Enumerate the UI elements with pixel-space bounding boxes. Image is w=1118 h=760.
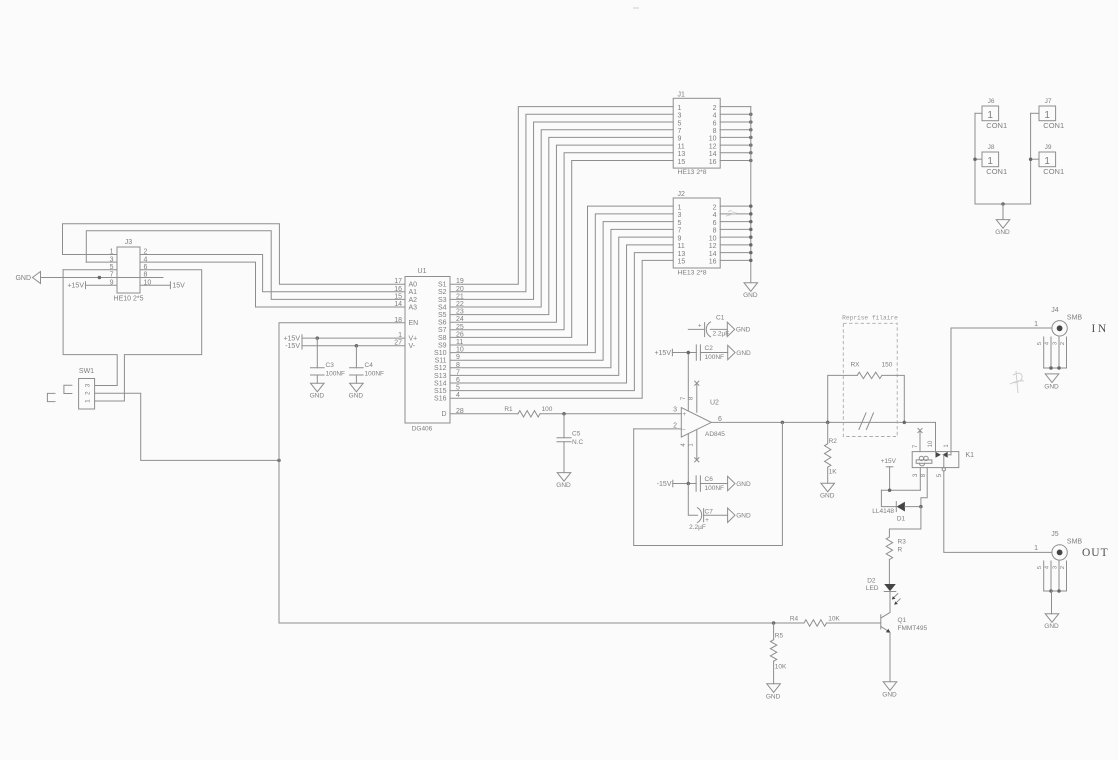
svg-text:S8: S8: [438, 335, 447, 342]
LED D2: [866, 578, 900, 605]
svg-text:R3: R3: [898, 539, 907, 546]
svg-text:+: +: [698, 324, 702, 330]
svg-text:FMMT495: FMMT495: [898, 625, 928, 632]
svg-text:1: 1: [1044, 156, 1050, 167]
svg-text:LL4148: LL4148: [872, 508, 894, 515]
wire J1 pin 4 to GND bus: [720, 113, 751, 115]
wire J7/J9 ground leg: [1030, 113, 1032, 204]
wire J9 pin1 stub: [1031, 158, 1039, 160]
svg-text:GND: GND: [1044, 623, 1059, 630]
svg-text:1: 1: [1034, 545, 1038, 552]
jumper slashes on output wire: [859, 413, 874, 430]
svg-text:DG406: DG406: [412, 426, 433, 433]
svg-text:9: 9: [678, 136, 682, 143]
junction RX right on output net: [903, 421, 907, 425]
wire J1 pin 2 to GND bus: [720, 106, 751, 108]
svg-text:2: 2: [85, 391, 92, 395]
svg-text:CON1: CON1: [986, 167, 1007, 176]
wire Q1 emitter to ground: [889, 633, 891, 682]
svg-text:6: 6: [713, 220, 717, 227]
resistor RX 150: [850, 361, 892, 378]
svg-text:4: 4: [713, 113, 717, 120]
wire U1 S11 to J2 pin 5: [450, 222, 673, 361]
svg-text:GND: GND: [736, 350, 751, 357]
wire node down to R3: [889, 507, 921, 537]
op-amp U2 AD845: [673, 396, 725, 447]
svg-text:100NF: 100NF: [705, 354, 725, 361]
svg-text:13: 13: [678, 151, 686, 158]
svg-text:8: 8: [713, 128, 717, 135]
wire J7 pin1 stub: [1031, 112, 1039, 114]
svg-text:S5: S5: [438, 312, 447, 319]
svg-text:J8: J8: [988, 144, 995, 151]
wire GND to J3 pin7/8: [41, 277, 164, 279]
ground below C4: [350, 383, 364, 392]
junction D1/R3: [919, 505, 923, 509]
svg-text:J5: J5: [1051, 531, 1059, 538]
wire J2 pin 14 to GND bus: [720, 252, 751, 254]
svg-text:5: 5: [678, 120, 682, 127]
svg-text:5: 5: [678, 220, 682, 227]
svg-text:HE13 2*8: HE13 2*8: [677, 169, 706, 176]
svg-text:GND: GND: [736, 513, 751, 520]
junction output/feedback: [781, 421, 785, 425]
svg-text:D2: D2: [867, 578, 876, 585]
svg-text:C2: C2: [705, 345, 714, 352]
wire J6/J8 ground leg: [975, 113, 1031, 204]
ground below R5: [767, 684, 781, 693]
wire J5 shield to ground: [1051, 591, 1053, 614]
wire to ground J6-J9: [1002, 204, 1004, 220]
capacitor C6 100NF: [696, 476, 724, 492]
svg-text:1: 1: [689, 443, 695, 447]
wire SW1.2 toward EN node: [95, 393, 279, 460]
svg-text:3: 3: [678, 113, 682, 120]
svg-text:GND: GND: [766, 693, 781, 700]
wire J1 pin 8 to GND bus: [720, 129, 751, 131]
dashed box Reprise filaire: [842, 315, 898, 437]
svg-text:CON1: CON1: [1043, 167, 1064, 176]
svg-text:8: 8: [689, 396, 695, 400]
wire +15V rail to C1: [688, 328, 704, 330]
wire J3.3 to U1 A2: [86, 231, 405, 300]
svg-text:1K: 1K: [829, 468, 838, 475]
svg-text:SW1: SW1: [79, 368, 94, 375]
wire J6 pin1 stub: [975, 112, 982, 114]
svg-text:15: 15: [678, 159, 686, 166]
svg-text:S16: S16: [434, 396, 447, 403]
junction C3 tap: [316, 336, 320, 340]
svg-text:2.2µF: 2.2µF: [689, 524, 706, 531]
svg-text:GND: GND: [556, 482, 571, 489]
wire K1 pin1 internal: [948, 454, 951, 456]
svg-text:12: 12: [709, 143, 717, 150]
junction J9 tap: [1029, 157, 1033, 161]
svg-text:7: 7: [913, 444, 919, 448]
svg-text:D: D: [441, 411, 446, 418]
svg-text:10K: 10K: [775, 663, 787, 670]
svg-text:-15V: -15V: [285, 343, 300, 350]
power port -15V at J3 pin10: [170, 282, 185, 290]
svg-text:C6: C6: [705, 476, 714, 483]
svg-text:4: 4: [1044, 565, 1050, 569]
svg-text:C1: C1: [716, 315, 725, 322]
wire U1 S14 to J2 pin 11: [450, 245, 673, 383]
svg-text:+15V: +15V: [67, 283, 84, 290]
U2 pin8 no-connect lead: [695, 381, 699, 412]
svg-text:LED: LED: [866, 585, 879, 592]
wire feedback loop: [634, 422, 783, 545]
svg-text:−: −: [682, 426, 686, 433]
ground below J5: [1045, 614, 1059, 623]
svg-text:S9: S9: [438, 342, 447, 349]
ground below J6-J9: [996, 220, 1010, 229]
wire RX left leg: [828, 375, 858, 422]
svg-text:C3: C3: [326, 362, 335, 369]
wire GND bus vertical: [750, 107, 752, 283]
resistor R2 1K: [825, 422, 838, 483]
svg-text:J7: J7: [1045, 98, 1052, 105]
connector J9 CON1: [1039, 144, 1064, 176]
wire +15V to U1 V+: [302, 337, 405, 339]
ground right of C6: [728, 476, 735, 490]
wire K1 pin1 to J4: [951, 328, 1052, 455]
wire U1 S15 to J2 pin 13: [450, 253, 673, 391]
svg-text:+: +: [705, 518, 709, 524]
svg-text:S7: S7: [438, 327, 447, 334]
switch actuator marks left of SW1: [47, 385, 72, 401]
svg-text:C4: C4: [365, 362, 374, 369]
svg-text:2: 2: [673, 422, 677, 429]
wire -15V to U1 V-: [302, 345, 405, 347]
connector J3: [110, 239, 152, 303]
wire U1 S13 to J2 pin 9: [450, 237, 673, 375]
svg-text:18: 18: [394, 317, 402, 324]
svg-text:GND: GND: [15, 275, 31, 282]
wire J1 pin 16 to GND bus: [720, 160, 751, 162]
svg-text:4: 4: [713, 212, 717, 219]
wire node to U1 EN: [279, 323, 405, 461]
svg-text:10K: 10K: [828, 616, 840, 623]
svg-text:GND: GND: [736, 481, 751, 488]
svg-text:16: 16: [394, 286, 402, 293]
connector J8 CON1: [982, 144, 1007, 176]
capacitor C1 2.2uF polarized: [698, 315, 729, 338]
svg-text:100NF: 100NF: [365, 371, 385, 378]
wire J3 pin1 stub: [63, 254, 118, 256]
svg-text:S4: S4: [438, 304, 447, 311]
svg-text:V+: V+: [409, 336, 418, 343]
connector J1 HE13 2*8: [673, 91, 720, 176]
svg-text:15: 15: [678, 259, 686, 266]
relay K1: [912, 440, 974, 477]
svg-text:S11: S11: [435, 358, 447, 365]
svg-text:S6: S6: [438, 320, 447, 327]
wire output into K1 pin10: [935, 422, 937, 452]
svg-text:15V: 15V: [172, 283, 185, 290]
wire J3.1 to U1 A0: [63, 224, 406, 284]
connector J2 HE13 2*8: [673, 191, 720, 276]
ground below Q1: [883, 682, 897, 691]
svg-text:2: 2: [1060, 342, 1066, 345]
svg-text:RX: RX: [850, 361, 860, 368]
svg-text:R: R: [898, 547, 903, 554]
svg-text:J4: J4: [1051, 307, 1059, 314]
svg-text:4: 4: [681, 443, 687, 447]
power port +15V at J3 pin9: [67, 282, 85, 290]
resistor R4 10K: [790, 616, 841, 627]
svg-text:A1: A1: [409, 289, 418, 296]
junction C5 tap: [562, 412, 566, 416]
svg-text:16: 16: [709, 259, 717, 266]
diode D1 LL4148: [872, 502, 905, 523]
wire RX right leg: [882, 375, 904, 422]
svg-text:9: 9: [678, 235, 682, 242]
wire U1 S7 to J1 pin 13: [450, 153, 673, 330]
svg-text:SMB: SMB: [1067, 539, 1083, 546]
ground below J4: [1045, 374, 1059, 383]
connector J6 CON1: [982, 98, 1007, 130]
svg-text:1: 1: [987, 156, 993, 167]
svg-text:Reprise filaire: Reprise filaire: [842, 315, 898, 322]
svg-text:7: 7: [678, 228, 682, 235]
svg-text:6: 6: [713, 120, 717, 127]
wire U1 S3 to J1 pin 5: [450, 122, 673, 299]
power port +15V at U1 V+: [283, 335, 302, 343]
svg-text:IN: IN: [1092, 323, 1109, 335]
ground right of C7: [728, 508, 735, 522]
svg-text:1: 1: [944, 444, 950, 448]
svg-text:100NF: 100NF: [326, 371, 346, 378]
svg-text:S13: S13: [434, 373, 447, 380]
svg-text:150: 150: [881, 361, 892, 368]
svg-text:EN: EN: [409, 320, 419, 327]
junction R4/R5: [772, 621, 776, 625]
svg-text:U1: U1: [418, 268, 427, 275]
ground below C5: [557, 473, 571, 482]
svg-text:A0: A0: [409, 282, 418, 289]
svg-text:3: 3: [673, 407, 677, 414]
svg-text:GND: GND: [743, 292, 758, 299]
svg-text:1: 1: [85, 399, 92, 403]
svg-text:10: 10: [928, 440, 934, 447]
svg-text:K1: K1: [966, 452, 975, 459]
wire J2 pin 10 to GND bus: [720, 236, 751, 238]
svg-text:S10: S10: [434, 350, 447, 357]
svg-text:GND: GND: [349, 393, 364, 400]
svg-text:5: 5: [1037, 342, 1043, 345]
svg-text:GND: GND: [882, 691, 897, 698]
wire J2 pin 4 to GND bus: [720, 213, 751, 215]
wire J2 pin 12 to GND bus: [720, 244, 751, 246]
wire J2 pin 8 to GND bus: [720, 228, 751, 230]
junction C4 tap: [355, 344, 359, 348]
svg-text:+15V: +15V: [283, 336, 300, 343]
capacitor C5 N.C: [557, 414, 584, 473]
svg-text:HE10 2*5: HE10 2*5: [114, 296, 144, 303]
svg-text:5: 5: [937, 473, 943, 477]
svg-text:1: 1: [678, 105, 682, 112]
U2 pin7 supply lead: [687, 353, 689, 412]
resistor R3 R: [886, 537, 906, 584]
ground below R2: [821, 483, 835, 492]
svg-text:J1: J1: [678, 91, 686, 98]
pencil mark near J2 pin 4: [726, 212, 736, 216]
wire +15V node to K1 pin3: [881, 489, 920, 491]
svg-text:1: 1: [678, 204, 682, 211]
ground port GND at J3 pin7: [15, 272, 40, 284]
wire U1 S9 to J2 pin 1: [450, 206, 673, 345]
wire +15V to C2: [672, 352, 696, 354]
svg-text:100NF: 100NF: [705, 485, 725, 492]
svg-text:3: 3: [913, 473, 919, 477]
wire U2 output to K1 pin10: [711, 421, 935, 423]
wire J3.6 to SW1 pin1: [95, 270, 202, 401]
wire J1 pin 6 to GND bus: [720, 121, 751, 123]
svg-text:4: 4: [1044, 341, 1050, 345]
wire -15V rail down to C7: [688, 484, 697, 516]
wire U1 D to R1: [450, 413, 518, 415]
svg-text:2: 2: [713, 105, 717, 112]
svg-text:C7: C7: [705, 508, 714, 515]
ground below C3: [311, 383, 325, 392]
svg-text:16: 16: [709, 159, 717, 166]
wire LED to Q1 collector: [889, 592, 891, 613]
transistor Q1 FMMT495: [881, 613, 928, 633]
svg-text:GND: GND: [310, 393, 325, 400]
IC U1 DG406 multiplexer: [394, 268, 464, 432]
resistor R5 10K: [770, 623, 787, 684]
capacitor C2 100NF: [696, 345, 724, 361]
wire J8 pin1 stub: [975, 158, 982, 160]
svg-text:D1: D1: [897, 516, 906, 523]
wire J3.5 to SW1 pin3: [63, 270, 117, 386]
wire C7 to ground: [704, 514, 728, 516]
wire U1 S5 to J1 pin 9: [450, 137, 673, 314]
power port -15V at U1 V-: [285, 342, 302, 350]
J5 shield pins 5,4,3,2: [1037, 561, 1066, 591]
svg-text:7: 7: [681, 396, 687, 400]
svg-text:15: 15: [394, 293, 402, 300]
svg-text:AD845: AD845: [705, 431, 725, 438]
ground right of C2: [728, 345, 735, 359]
wire J1 pin 14 to GND bus: [720, 152, 751, 154]
faint speck top middle: [633, 7, 639, 9]
svg-text:S2: S2: [438, 289, 447, 296]
svg-text:S14: S14: [434, 380, 447, 387]
wire R1 to U2 pin3: [540, 413, 681, 415]
wire J3.4 to U1 A3: [140, 262, 405, 307]
wire U1 S4 to J1 pin 7: [450, 130, 673, 307]
connector J4 SMB: [1034, 307, 1082, 336]
connector J5 SMB: [1034, 531, 1082, 560]
svg-text:J2: J2: [678, 191, 686, 198]
svg-text:C5: C5: [572, 430, 581, 437]
wire K1 pin5 to J5: [944, 471, 1052, 552]
junction RX/R2 on output net: [826, 421, 830, 425]
pencil scribble near J4: [1010, 371, 1024, 393]
U2 pin1 no-connect lead: [695, 430, 699, 462]
svg-text:14: 14: [394, 301, 402, 308]
svg-text:14: 14: [709, 151, 717, 158]
svg-text:CON1: CON1: [1043, 121, 1064, 130]
wire K1 pin3 down: [919, 468, 921, 491]
svg-text:2: 2: [713, 204, 717, 211]
svg-text:3: 3: [678, 212, 682, 219]
svg-text:+15V: +15V: [881, 458, 897, 465]
svg-text:7: 7: [678, 128, 682, 135]
wire -15V to C6: [673, 483, 696, 485]
svg-text:N.C: N.C: [572, 439, 584, 446]
ground below J1/J2 bus: [744, 283, 758, 292]
svg-text:1: 1: [1044, 110, 1050, 121]
junction on GND wire: [98, 276, 102, 280]
wire J1 pin 12 to GND bus: [720, 144, 751, 146]
svg-text:S12: S12: [434, 365, 447, 372]
svg-text:S1: S1: [438, 282, 447, 289]
ground right of C1: [727, 322, 734, 336]
wire J1 pin 10 to GND bus: [720, 136, 751, 138]
svg-text:-15V: -15V: [657, 481, 672, 488]
svg-text:3: 3: [85, 383, 92, 387]
svg-text:CON1: CON1: [986, 121, 1007, 130]
svg-text:12: 12: [709, 243, 717, 250]
junction +15V feed: [888, 489, 892, 493]
junction EN / control node: [277, 459, 281, 463]
wire node down to R4/R5 junction: [279, 460, 804, 623]
wire C2 to ground: [700, 352, 727, 354]
svg-text:10: 10: [709, 235, 717, 242]
K1 contact to pin 5: [943, 455, 945, 468]
svg-text:1: 1: [1034, 321, 1038, 328]
K1 pin7 no-connect lead: [918, 428, 922, 451]
svg-text:GND: GND: [995, 229, 1010, 236]
svg-text:Q1: Q1: [898, 617, 907, 624]
svg-text:S15: S15: [434, 388, 447, 395]
connector J7 CON1: [1039, 98, 1064, 130]
svg-text:2.2µF: 2.2µF: [713, 331, 730, 338]
wire J3.2 to U1 A1: [140, 255, 405, 292]
svg-text:GND: GND: [1044, 383, 1059, 390]
svg-text:A3: A3: [409, 304, 418, 311]
svg-text:17: 17: [394, 278, 402, 285]
resistor R1 100: [504, 406, 552, 417]
svg-text:+15V: +15V: [654, 350, 671, 357]
svg-text:11: 11: [678, 243, 685, 250]
wire J3 pin5 stub: [63, 269, 117, 271]
svg-text:GND: GND: [820, 493, 835, 500]
svg-text:8: 8: [921, 473, 927, 477]
wire U1 S10 to J2 pin 3: [450, 214, 673, 353]
svg-text:J9: J9: [1045, 144, 1052, 151]
svg-text:+: +: [682, 411, 686, 418]
power port +15V at C2: [654, 349, 672, 357]
svg-text:3: 3: [1052, 342, 1058, 345]
svg-text:2: 2: [1060, 566, 1066, 569]
svg-text:100: 100: [542, 406, 553, 413]
svg-text:SMB: SMB: [1067, 315, 1083, 322]
svg-text:1: 1: [987, 110, 993, 121]
svg-text:J3: J3: [125, 239, 133, 246]
wire +15V to J3 pin9: [86, 284, 118, 286]
capacitor C4 100NF: [350, 346, 384, 384]
svg-text:5: 5: [1037, 566, 1043, 569]
svg-text:V-: V-: [409, 343, 416, 350]
svg-text:14: 14: [709, 251, 717, 258]
svg-text:11: 11: [678, 143, 685, 150]
svg-text:10: 10: [709, 136, 717, 143]
svg-text:U2: U2: [710, 400, 719, 407]
